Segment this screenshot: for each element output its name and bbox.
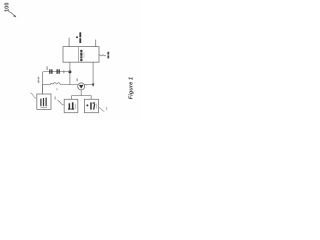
- wire leader arrow from 100: [9, 11, 15, 15]
- label 20 left of vertical wire: [38, 77, 40, 80]
- wire upper horizontal line: [43, 72, 70, 94]
- node arrowhead at J2: [92, 84, 95, 87]
- label 16 at output: [107, 52, 109, 55]
- wire wavy output right of U1: [99, 55, 106, 56]
- wire stem below circle: [80, 90, 82, 96]
- wire T line to bottom boxes: [72, 96, 92, 100]
- wire divider inside U1: [78, 47, 80, 63]
- wire top lead left of U1: [68, 38, 70, 47]
- label 12 above U1 (dot + bar): [76, 36, 78, 38]
- wire lower horizontal line: [43, 84, 51, 86]
- label right leader: [106, 107, 107, 110]
- inductor L1: [50, 83, 60, 85]
- label tick left of J1: [63, 70, 64, 73]
- label right of striped box: [55, 97, 56, 100]
- wire leader squiggle right of bottom-right box: [99, 107, 105, 111]
- wire leader squiggle to bottom-left box: [58, 101, 64, 105]
- svg-text:100: 100: [4, 3, 10, 13]
- svg-text:Figure 1: Figure 1: [129, 77, 135, 100]
- block bottom-right box: [84, 99, 98, 112]
- node dot right of circle: [86, 84, 87, 85]
- wire lead into striped box: [42, 85, 44, 94]
- label rotated text inside U1: [80, 50, 82, 53]
- wire leader squiggle left of striped box: [30, 93, 36, 99]
- capacitor C2: [57, 69, 58, 74]
- block U1 main converter box: [63, 47, 99, 63]
- wire bottom lead right from U1: [92, 62, 94, 84]
- label above C1: [46, 66, 48, 70]
- wire top lead right of U1: [95, 40, 97, 47]
- block bottom-left box: [64, 99, 78, 112]
- capacitor C1: [49, 69, 50, 74]
- label above circle: [77, 79, 78, 82]
- wire bottom lead left from U1: [69, 62, 71, 84]
- block battery left striped box: [37, 94, 51, 109]
- label below L1: [56, 88, 57, 90]
- transducer circle with triangle: [78, 83, 85, 90]
- node junction dot J1: [68, 70, 71, 73]
